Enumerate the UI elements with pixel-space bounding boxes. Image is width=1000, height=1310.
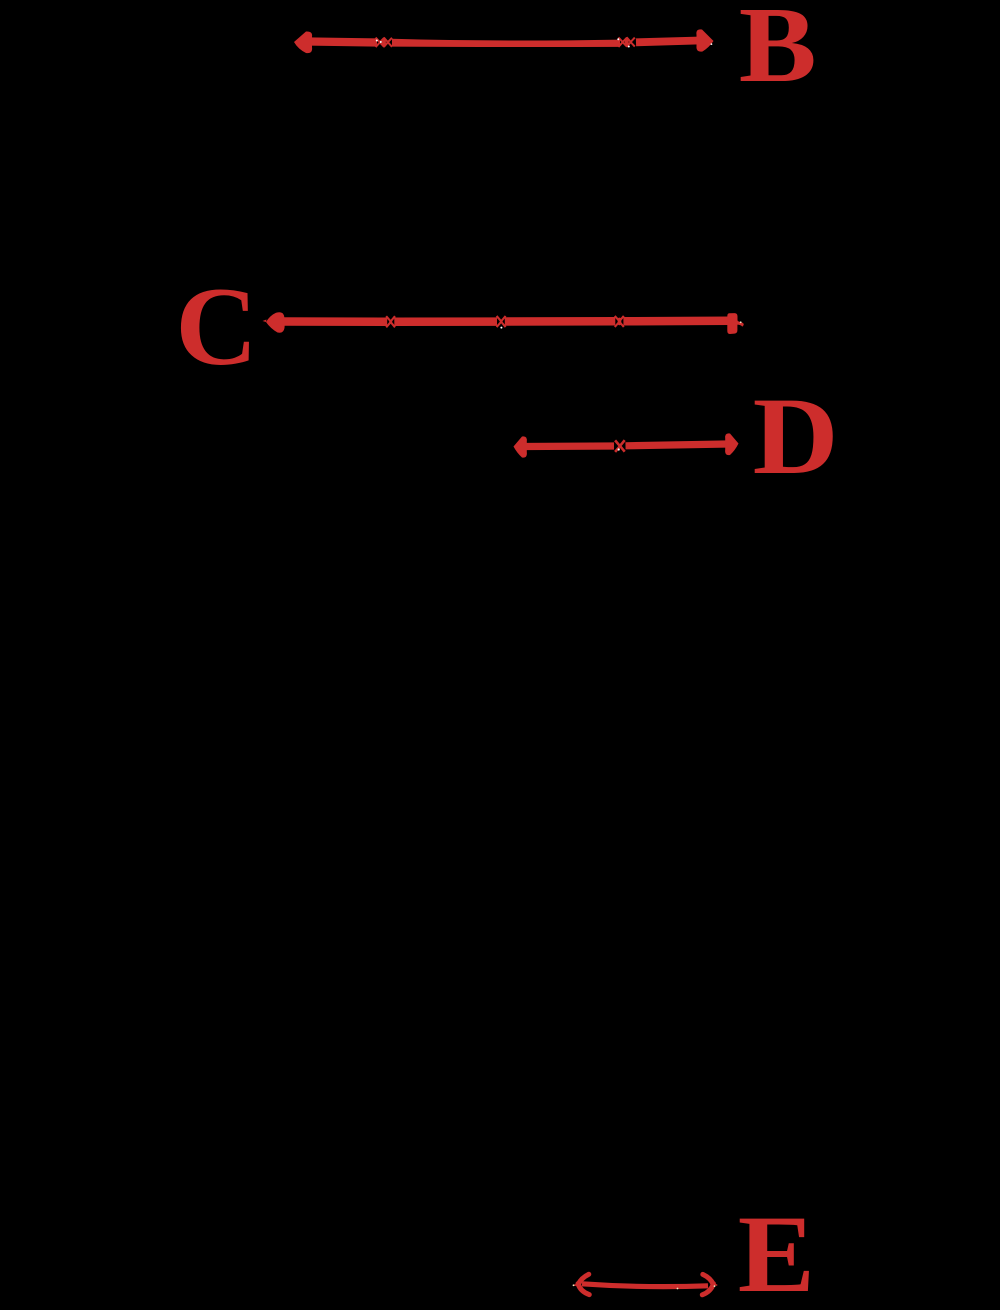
label B	[739, 0, 817, 105]
line B annotation: junction 2 chevrons	[618, 37, 634, 47]
line C annotation: left end arrowhead	[263, 312, 286, 333]
svg-text:D: D	[753, 375, 839, 497]
segment E annotation: left hook arrowhead	[574, 1274, 589, 1294]
red annotation over line C : segment 2 shaft	[394, 317, 497, 326]
red annotation over line B : segment 2 shaft	[392, 39, 620, 47]
line C annotation: junction 3 center dot	[618, 318, 622, 326]
line B annotation: junction 2 center dot	[625, 38, 629, 46]
line B annotation: junction 1 center dot	[382, 38, 386, 46]
pale speck at C right tip	[740, 321, 742, 323]
red annotation over line B : segment 3 shaft	[636, 41, 699, 43]
label C	[175, 264, 257, 389]
red annotation over line B : segment 1 shaft	[309, 42, 377, 43]
line D annotation: right end arrowhead	[725, 433, 738, 455]
white speck at D junction	[618, 448, 620, 450]
red annotation over line C : segment 3 shaft	[505, 317, 616, 326]
line D annotation: left end arrowhead	[514, 436, 527, 457]
red annotation over line D : segment 1 shaft	[525, 442, 614, 450]
line C annotation: junction 3 chevrons	[615, 316, 624, 327]
label E	[738, 1195, 815, 1310]
svg-text:C: C	[175, 264, 257, 389]
line D annotation: junction chevrons	[615, 440, 625, 452]
white speck at B junction 2	[617, 38, 630, 47]
white speck at B right tip	[711, 43, 713, 45]
line B annotation: left end arrowhead	[294, 31, 312, 53]
label D	[753, 375, 839, 497]
white speck at B junction 1	[376, 40, 382, 44]
line B annotation: junction 1 chevrons	[376, 38, 392, 48]
line C annotation: junction 1 chevrons	[386, 316, 395, 327]
red annotation over line C : segment 1 shaft	[282, 317, 387, 326]
svg-text:B: B	[739, 0, 817, 105]
red annotation over line D : segment 2 shaft	[626, 444, 728, 446]
pale specks near E arrow	[573, 1284, 716, 1289]
red annotation over line C : segment 4 shaft	[623, 317, 730, 326]
line C annotation: junction 2 chevrons	[497, 316, 506, 327]
white speck at C junction 2	[500, 327, 502, 329]
svg-text:E: E	[738, 1195, 815, 1310]
line C annotation: right end arrowhead	[727, 313, 743, 334]
segment E annotation: right hook arrowhead	[702, 1274, 716, 1294]
line B annotation: right end arrowhead	[696, 29, 713, 51]
red annotation over segment E : shaft	[582, 1284, 708, 1287]
